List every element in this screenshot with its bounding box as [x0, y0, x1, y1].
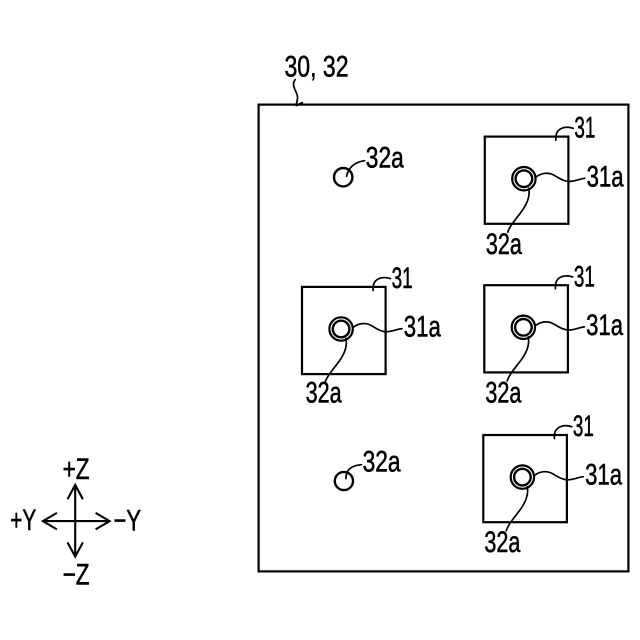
svg-text:32a: 32a [366, 141, 404, 174]
leader line 30,32 [293, 80, 302, 106]
square pad 31 (middle left) [302, 287, 386, 374]
hole 32a (lower left, small circle) [335, 472, 353, 490]
leader line 31 (middle right) [555, 276, 572, 289]
hole 32a (upper left, small circle) [334, 168, 352, 186]
svg-text:31: 31 [573, 410, 594, 443]
leader line 32a (lower left) [346, 465, 362, 479]
leader line 32a (upper left) [347, 161, 365, 177]
group: pad 31 bottom-right [483, 410, 622, 559]
leader line 31 (middle left) [373, 278, 390, 291]
hole 32a inner circle (bottom right) [514, 469, 531, 486]
svg-text:31a: 31a [585, 459, 622, 492]
svg-text:32a: 32a [486, 228, 522, 261]
leader line 31 (bottom right) [554, 426, 571, 439]
group: pad 31 middle-right [484, 260, 623, 409]
outer plate rectangle 30,32 [259, 105, 629, 572]
axis arrowhead +Z (top chevron) [68, 485, 83, 499]
square pad 31 (middle right) [484, 285, 568, 372]
axis vertical shaft [74, 486, 76, 556]
svg-text:31: 31 [574, 260, 595, 293]
svg-text:−Y: −Y [114, 504, 142, 537]
svg-text:31a: 31a [586, 309, 623, 342]
leader line 31a (top right) [537, 173, 585, 181]
group: pad 31 top-right [485, 112, 624, 261]
ring 31a outer (bottom right) [511, 465, 534, 488]
ring 31a outer (middle left) [329, 317, 352, 340]
leader line 32a (bottom right) [506, 487, 527, 531]
leader line 31a (middle right) [536, 322, 584, 330]
hole 32a inner circle (top right) [516, 170, 533, 187]
svg-text:+Y: +Y [10, 504, 36, 537]
leader line 31 (top right) [556, 127, 573, 140]
axis arrowhead +Y (left chevron) [43, 513, 57, 530]
ring 31a outer (top right) [512, 167, 535, 190]
svg-text:30, 32: 30, 32 [285, 50, 349, 83]
square pad 31 (bottom right) [483, 435, 567, 522]
svg-text:31a: 31a [404, 311, 441, 344]
axis arrowhead -Y (right chevron) [96, 513, 110, 530]
leader line 32a (middle left) [325, 339, 346, 383]
ring 31a outer (middle right) [512, 316, 535, 339]
svg-text:31a: 31a [587, 160, 624, 193]
svg-text:31: 31 [574, 112, 595, 145]
svg-text:32a: 32a [306, 377, 342, 410]
svg-text:31: 31 [392, 262, 413, 295]
square pad 31 (top right) [485, 137, 569, 224]
group: pad 31 middle-left [302, 262, 441, 410]
svg-text:32a: 32a [363, 446, 401, 479]
axis indicator Y-Z [43, 485, 110, 557]
axis arrowhead -Z (bottom chevron) [68, 542, 83, 556]
leader line 32a (middle right) [507, 337, 528, 381]
leader line 32a (top right) [508, 188, 529, 232]
svg-text:32a: 32a [484, 526, 520, 559]
leader line 31a (middle left) [354, 324, 402, 332]
axis horizontal shaft [44, 520, 109, 522]
hole 32a inner circle (middle right) [515, 319, 532, 336]
leader line 31a (bottom right) [535, 472, 583, 480]
svg-text:32a: 32a [485, 376, 521, 409]
svg-text:−Z: −Z [63, 558, 90, 591]
hole 32a inner circle (middle left) [333, 321, 350, 338]
svg-text:+Z: +Z [63, 453, 90, 486]
